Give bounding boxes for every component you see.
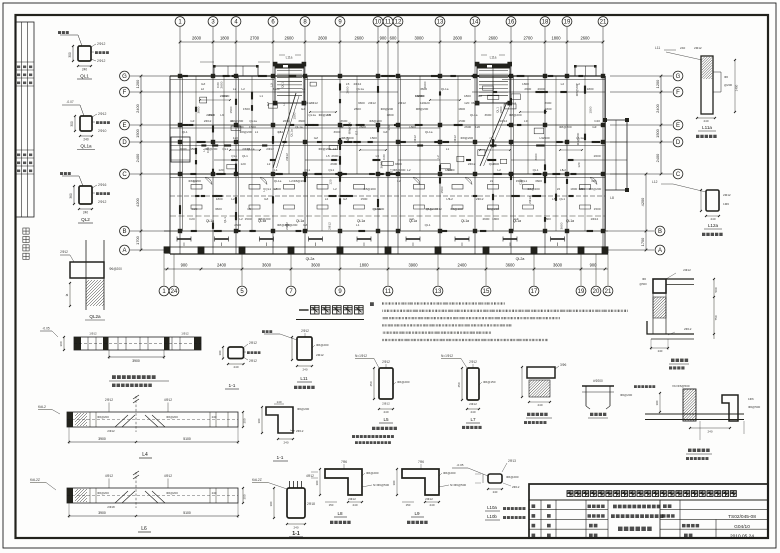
right axis bubbles B A [655,226,665,236]
svg-text:2Φ12: 2Φ12 [97,42,105,46]
svg-text:1800: 1800 [464,94,471,98]
svg-text:3600: 3600 [311,263,321,268]
svg-text:2Φ12: 2Φ12 [469,360,477,364]
svg-text:16: 16 [508,20,515,26]
svg-text:QL1: QL1 [304,168,310,172]
svg-text:L5: L5 [327,113,331,117]
svg-text:L2: L2 [233,87,237,91]
svg-text:QL1: QL1 [533,168,539,172]
svg-text:1500: 1500 [655,128,660,137]
balcony beam marks [177,238,191,240]
svg-text:QL1: QL1 [265,187,271,191]
svg-text:150: 150 [329,503,334,507]
svg-text:2600: 2600 [488,36,498,41]
detail L5 note lines [352,435,355,438]
svg-text:Φ8@200: Φ8@200 [450,207,463,211]
svg-text:1500: 1500 [243,107,250,111]
svg-text:1500: 1500 [377,207,384,211]
detail opening edge label [527,413,530,416]
svg-text:300: 300 [655,400,659,405]
svg-text:QL1a: QL1a [249,119,257,123]
title block middle labels [588,505,592,508]
svg-text:240: 240 [429,503,434,507]
svg-text:L7: L7 [470,417,476,422]
svg-text:G: G [676,74,681,80]
svg-text:2600: 2600 [345,86,349,93]
svg-text:2400: 2400 [655,103,660,112]
svg-text:E: E [122,123,126,129]
svg-text:QL2: QL2 [81,217,90,222]
signature strip table [16,22,35,217]
svg-text:1-1: 1-1 [292,531,300,537]
left vertical dimension line [140,76,142,250]
svg-text:5100: 5100 [183,511,191,515]
svg-text:1800: 1800 [359,263,369,268]
top axis grid stubs [179,27,181,76]
svg-text:N=1Φ12: N=1Φ12 [441,354,453,358]
svg-text:QL1a: QL1a [274,179,282,183]
svg-text:Φ6@200: Φ6@200 [166,415,178,419]
svg-text:L9: L9 [333,147,337,151]
svg-text:Φ6@200: Φ6@200 [109,267,122,271]
svg-text:1800: 1800 [570,187,577,191]
title block right labels [663,504,667,508]
svg-text:2600: 2600 [237,125,244,129]
svg-text:2Φ12: 2Φ12 [328,222,332,230]
svg-text:QL1: QL1 [80,74,89,79]
svg-text:4Φ12: 4Φ12 [105,474,113,478]
svg-text:1800: 1800 [522,82,529,86]
svg-text:A: A [658,248,662,254]
svg-text:3900: 3900 [408,263,418,268]
svg-text:L2: L2 [201,87,205,91]
detail L10 section [488,474,502,483]
svg-text:L2: L2 [561,82,565,86]
svg-text:A: A [122,248,126,254]
svg-text:G04/10: G04/10 [734,524,750,530]
svg-text:240: 240 [658,349,663,353]
svg-text:3900: 3900 [98,437,106,441]
svg-text:Φ6@200: Φ6@200 [366,471,379,475]
svg-text:Φ6@200: Φ6@200 [97,415,109,419]
svg-text:2600: 2600 [538,87,545,91]
svg-text:QL1a: QL1a [566,219,574,223]
svg-text:QL2a: QL2a [306,257,315,261]
svg-text:450: 450 [369,381,373,386]
svg-text:4200: 4200 [135,197,140,206]
svg-text:2600: 2600 [330,162,337,166]
svg-text:2Φ12: 2Φ12 [249,359,257,363]
svg-text:QL1a: QL1a [461,219,469,223]
svg-text:300: 300 [218,350,222,355]
svg-text:2Φ12: 2Φ12 [469,402,477,406]
partition walls lower [195,174,197,231]
svg-text:1500: 1500 [249,125,256,129]
svg-text:2010.05.24: 2010.05.24 [730,534,754,540]
svg-text:QL1a: QL1a [513,219,521,223]
wall door-jamb thick marks [560,91,566,93]
svg-text:3600: 3600 [298,119,305,123]
left stair diagonal [273,93,296,168]
detail floor-wall junction section [634,385,637,388]
building outer walls [170,75,605,77]
svg-text:120: 120 [387,125,391,130]
svg-text:Φ8@200: Φ8@200 [509,113,522,117]
svg-text:2Φ12: 2Φ12 [105,398,113,402]
svg-text:240: 240 [470,410,475,414]
svg-text:L11a: L11a [490,56,497,60]
svg-text:2Φ12: 2Φ12 [98,112,106,116]
svg-text:L1: L1 [356,223,360,227]
svg-text:2Φ12: 2Φ12 [382,360,390,364]
svg-text:140: 140 [276,400,281,404]
svg-text:2Φ12: 2Φ12 [206,113,214,117]
svg-text:Φ6@200: Φ6@200 [297,407,309,411]
svg-text:F: F [676,90,680,96]
svg-text:QL1a: QL1a [308,113,316,117]
svg-text:120: 120 [464,101,469,105]
svg-text:300: 300 [269,501,273,506]
svg-text:K#L2: K#L2 [38,405,46,409]
detail ring-beam wall label [671,359,675,362]
horizontal wall line E [170,124,605,126]
right annex [605,120,627,190]
svg-text:750: 750 [714,315,718,320]
svg-text:Φ8@200: Φ8@200 [425,207,438,211]
svg-text:2600: 2600 [284,36,294,41]
svg-text:2Φ12: 2Φ12 [382,402,390,406]
horizontal wall line B [164,230,608,232]
svg-text:1Φ12: 1Φ12 [181,332,189,336]
svg-text:L2: L2 [407,168,411,172]
vertical grid walls [179,76,181,254]
detail L9 T-section [402,469,439,495]
svg-text:C20: C20 [189,217,195,221]
svg-text:1800: 1800 [587,87,594,91]
svg-text:2Φ12: 2Φ12 [98,200,106,204]
svg-text:120: 120 [233,136,238,140]
svg-text:Φ6@200: Φ6@200 [97,491,109,495]
svg-text:17: 17 [531,289,538,295]
columns row G [178,74,182,78]
svg-text:2600: 2600 [234,223,241,227]
svg-text:L9: L9 [524,119,528,123]
svg-text:Φ8@200: Φ8@200 [416,107,429,111]
columns row E [178,123,182,127]
svg-text:240: 240 [82,68,88,72]
svg-text:QL1a: QL1a [295,125,303,129]
svg-text:QL1a: QL1a [296,219,304,223]
svg-text:2Φ12: 2Φ12 [348,497,356,501]
right vertical dimension line [660,76,662,174]
svg-text:1500: 1500 [458,119,465,123]
svg-text:300: 300 [59,341,63,346]
svg-text:21: 21 [605,289,612,295]
svg-text:120: 120 [241,162,246,166]
left axis bubbles G-A [120,71,130,81]
svg-text:2600: 2600 [192,36,202,41]
svg-text:L2: L2 [241,87,245,91]
svg-text:2600: 2600 [354,36,364,41]
svg-text:2700: 2700 [250,36,260,41]
svg-text:2Φ12: 2Φ12 [242,147,250,151]
svg-text:Φ6@200: Φ6@200 [397,380,410,384]
svg-text:C20: C20 [594,119,600,123]
svg-text:2600: 2600 [318,36,328,41]
svg-text:1-1: 1-1 [277,455,284,461]
svg-text:2600: 2600 [453,36,463,41]
right stair tower [477,64,510,103]
svg-text:C20: C20 [192,207,198,211]
svg-text:4Φ12: 4Φ12 [164,474,172,478]
svg-text:240: 240 [710,217,715,221]
svg-text:2600: 2600 [354,107,361,111]
svg-text:120: 120 [577,162,581,167]
svg-text:B: B [658,229,662,235]
detail QL1 section [78,46,91,61]
svg-text:21: 21 [600,20,607,26]
svg-text:19: 19 [578,289,585,295]
svg-text:300: 300 [70,121,74,127]
svg-text:L2: L2 [436,155,440,159]
svg-text:2400: 2400 [655,153,660,162]
svg-text:GZ: GZ [355,131,359,135]
svg-text:2400: 2400 [217,263,227,268]
svg-text:1500: 1500 [229,106,233,113]
svg-text:300: 300 [243,418,247,423]
svg-text:20: 20 [593,289,600,295]
svg-text:L2: L2 [333,187,337,191]
svg-text:Φ8@200: Φ8@200 [363,187,376,191]
partition walls upper [195,76,197,174]
interior dimension tick clusters [200,99,230,101]
svg-text:120: 120 [328,179,332,184]
svg-text:GZ: GZ [314,136,318,140]
svg-text:1500: 1500 [589,106,593,113]
columns row B [178,229,182,233]
svg-text:2Φ12: 2Φ12 [453,135,457,143]
svg-text:Φ6@500: Φ6@500 [748,405,760,409]
svg-text:3600: 3600 [358,101,365,105]
svg-text:QL1a: QL1a [258,219,266,223]
svg-text:240: 240 [707,430,712,434]
horizontal line y216 [170,215,605,217]
svg-text:#Φ200: #Φ200 [593,379,603,383]
right stair diagonal [480,102,507,166]
svg-text:QL1a: QL1a [425,130,433,134]
svg-text:12: 12 [395,20,402,26]
svg-text:QL1: QL1 [489,162,495,166]
svg-text:L11a: L11a [702,125,712,130]
svg-text:Φ8@200: Φ8@200 [575,83,579,96]
svg-text:2Φ12: 2Φ12 [354,82,362,86]
svg-text:Φ8@200: Φ8@200 [285,223,298,227]
svg-text:2Φ12: 2Φ12 [398,101,406,105]
svg-text:L11a: L11a [286,56,293,60]
svg-text:QL1a: QL1a [356,87,364,91]
svg-text:GZ: GZ [190,119,194,123]
svg-text:K#L2Z: K#L2Z [252,478,262,482]
svg-text:L5: L5 [557,187,561,191]
svg-text:240: 240 [83,138,89,142]
svg-text:2Φ12: 2Φ12 [468,162,476,166]
svg-text:13: 13 [435,289,442,295]
svg-text:GZ: GZ [264,197,268,201]
svg-text:K#L2Z: K#L2Z [30,478,40,482]
svg-text:240: 240 [352,503,357,507]
svg-text:900: 900 [380,36,388,41]
svg-text:L5: L5 [326,154,330,158]
svg-text:2Φ12: 2Φ12 [204,119,212,123]
svg-text:1Φ6: 1Φ6 [748,397,754,401]
right axis bubbles G-C [673,71,683,81]
svg-text:Φ6@200: Φ6@200 [316,343,329,347]
svg-text:2600: 2600 [180,147,187,151]
detail L11 section [297,337,312,360]
svg-text:5100: 5100 [183,437,191,441]
svg-text:2Φ12: 2Φ12 [97,59,105,63]
svg-text:24: 24 [171,289,178,295]
svg-text:2Φ12: 2Φ12 [304,101,312,105]
svg-text:Φ8@200: Φ8@200 [369,119,382,123]
svg-text:L2: L2 [488,137,492,141]
svg-text:1800: 1800 [387,113,394,117]
detail section 1-1 of L4 [266,407,293,433]
svg-text:Φ8@200: Φ8@200 [347,121,351,134]
svg-text:4200: 4200 [640,197,645,206]
svg-text:240: 240 [283,441,288,445]
svg-text:QL1: QL1 [182,130,188,134]
svg-text:2Φ12: 2Φ12 [296,429,304,433]
svg-text:240: 240 [212,415,217,419]
svg-text:2400: 2400 [457,263,467,268]
svg-text:1Φ12: 1Φ12 [89,332,97,336]
svg-text:240: 240 [383,410,388,414]
bottom dimension line [164,268,608,270]
svg-text:2Φ12: 2Φ12 [266,147,274,151]
svg-text:la: la [65,294,69,297]
svg-text:2400: 2400 [135,153,140,162]
room fixture rects [478,150,485,156]
svg-text:1500: 1500 [361,197,368,201]
svg-text:QL1: QL1 [559,197,565,201]
svg-text:450: 450 [457,382,461,387]
svg-text:3900: 3900 [132,359,140,363]
detail floor-wall junction label [688,449,692,452]
svg-text:3600: 3600 [273,87,280,91]
detail beam L4 elevation [67,412,238,427]
detail QL1a door-lintel label [112,375,116,379]
svg-text:C: C [122,172,127,178]
svg-text:2600: 2600 [524,87,531,91]
detail QL1a door-lintel beam elevation [74,337,201,350]
svg-text:L2: L2 [497,168,501,172]
svg-text:QL2a: QL2a [89,314,101,319]
general notes block [370,302,374,306]
svg-text:Φ8@200: Φ8@200 [231,119,244,123]
horizontal wall line C [170,173,605,175]
svg-text:300: 300 [257,418,261,423]
svg-text:240: 240 [212,491,217,495]
svg-text:L2: L2 [289,179,293,183]
svg-text:C20: C20 [382,154,386,160]
svg-text:QL2a: QL2a [516,257,525,261]
svg-text:L1: L1 [255,130,259,134]
svg-text:Φ8@200: Φ8@200 [461,136,474,140]
detail L5 section [379,368,393,399]
svg-text:3000: 3000 [414,36,424,41]
svg-text:120: 120 [425,101,430,105]
bottom axis bubbles [159,286,169,296]
svg-text:2700: 2700 [523,36,533,41]
svg-text:240: 240 [537,403,542,407]
svg-text:N=Φ6@500: N=Φ6@500 [373,483,389,487]
svg-text:2600: 2600 [482,217,489,221]
svg-text:Φ8@200: Φ8@200 [559,125,572,129]
svg-text:QL1a: QL1a [80,144,92,149]
svg-text:L1: L1 [274,168,278,172]
svg-text:Φ8@200: Φ8@200 [527,187,540,191]
detail section 1-1 of L6 [287,488,305,518]
svg-text:3Φ6: 3Φ6 [560,363,566,367]
svg-text:Φ8@200: Φ8@200 [341,136,354,140]
svg-text:Φ6: Φ6 [642,277,646,281]
svg-text:2Φ12: 2Φ12 [60,250,68,254]
svg-text:240: 240 [293,526,298,530]
svg-text:3900: 3900 [98,511,106,515]
svg-text:GZ: GZ [303,223,307,227]
svg-text:L2: L2 [231,197,235,201]
svg-text:GZ: GZ [383,130,387,134]
columns row D [178,140,182,144]
svg-text:QL1a: QL1a [290,129,294,137]
svg-text:2Φ12: 2Φ12 [591,217,599,221]
svg-text:QL1a: QL1a [470,113,478,117]
detail section 1-1 of QL1a [228,347,244,359]
svg-text:L5: L5 [446,197,450,201]
svg-text:2Φ12: 2Φ12 [220,94,228,98]
svg-text:3600: 3600 [262,263,272,268]
svg-text:1700: 1700 [135,235,140,244]
svg-text:360: 360 [69,193,73,199]
svg-text:240: 240 [302,368,307,372]
svg-text:Φ8@200: Φ8@200 [487,207,500,211]
svg-text:L5: L5 [560,168,564,172]
svg-text:2Φ12: 2Φ12 [694,46,702,50]
svg-text:-0.07: -0.07 [66,100,73,104]
svg-text:GZ: GZ [301,107,305,111]
door swing arcs [205,178,212,185]
horizontal line y196 [170,195,605,197]
svg-text:300: 300 [68,52,72,58]
svg-text:600: 600 [390,36,398,41]
svg-text:L9: L9 [220,113,224,117]
svg-text:L2: L2 [397,179,401,183]
svg-text:1Φ6: 1Φ6 [723,202,729,206]
svg-text:Φ6@200: Φ6@200 [620,393,632,397]
svg-text:3600: 3600 [484,113,491,117]
svg-text:15: 15 [483,289,490,295]
horizontal wall line F [170,91,305,93]
svg-text:2600: 2600 [580,36,590,41]
svg-text:QL1a: QL1a [576,136,584,140]
svg-text:QL1: QL1 [277,130,283,134]
svg-text:500: 500 [714,287,718,292]
lintel marks row [191,185,202,190]
svg-text:L12: L12 [652,180,658,184]
svg-text:7Φ6: 7Φ6 [418,460,424,464]
title block middle values [613,505,617,509]
